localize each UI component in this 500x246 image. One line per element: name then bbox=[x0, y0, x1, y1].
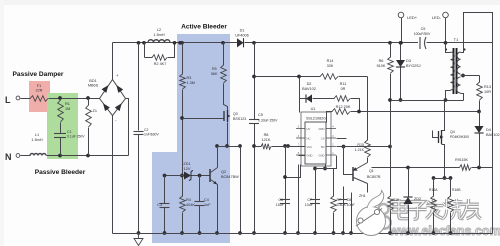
wire IC bottom line bbox=[313, 156, 336, 171]
svg-text:1.5mH: 1.5mH bbox=[153, 33, 164, 37]
connector ZH1 bbox=[356, 191, 386, 236]
wire bridge right vertex to N bbox=[126, 99, 129, 156]
svg-text:DRN: DRN bbox=[319, 127, 325, 131]
terminal N bbox=[5, 152, 20, 162]
capacitor C4 bbox=[195, 174, 212, 234]
svg-text:UF4006: UF4006 bbox=[235, 34, 249, 38]
resistor R7 bbox=[331, 169, 347, 234]
resistor R16B bbox=[448, 179, 462, 234]
wire D2 line bbox=[300, 77, 360, 113]
capacitor C3 bbox=[157, 174, 169, 234]
node C8 bottom bbox=[341, 231, 345, 235]
svg-text:R2 4K7: R2 4K7 bbox=[154, 62, 167, 66]
wire R16 bus bbox=[432, 176, 453, 180]
wire top rail bbox=[113, 42, 493, 44]
svg-text:Passive Damper: Passive Damper bbox=[13, 71, 64, 78]
wire ZH1 pin column bbox=[351, 193, 353, 234]
svg-text:F1: F1 bbox=[37, 84, 41, 88]
resistor R1 bbox=[58, 99, 71, 134]
svg-text:C9: C9 bbox=[421, 27, 426, 31]
svg-text:R9115K: R9115K bbox=[455, 158, 468, 162]
svg-text:GND: GND bbox=[319, 153, 325, 157]
resistor R15 bbox=[355, 140, 371, 157]
transistor Q3 bbox=[224, 110, 246, 122]
wire VCC pin line bbox=[283, 144, 297, 148]
node pin line R6col bbox=[388, 145, 392, 149]
svg-text:Q3: Q3 bbox=[233, 112, 238, 116]
svg-text:HV: HV bbox=[307, 127, 311, 131]
svg-text:C7: C7 bbox=[307, 198, 312, 202]
svg-text:10R: 10R bbox=[484, 90, 491, 94]
svg-text:12V: 12V bbox=[184, 167, 191, 171]
label Passive Damper bbox=[13, 71, 64, 78]
svg-text:1.5mH: 1.5mH bbox=[31, 138, 42, 142]
varistor Z1 bbox=[86, 99, 97, 156]
wire R12 line bbox=[327, 112, 480, 123]
wire Q3 node to bleed column bbox=[228, 144, 242, 233]
svg-text:D2: D2 bbox=[307, 82, 312, 86]
wire Q3 gate line bbox=[180, 116, 224, 120]
svg-text:510K: 510K bbox=[377, 64, 386, 68]
node C7 bottom bbox=[313, 231, 317, 235]
svg-text:T1: T1 bbox=[454, 37, 459, 42]
resistor R4 bbox=[180, 196, 196, 234]
active bleeder highlight box bbox=[152, 34, 230, 243]
node C3 bottom bbox=[163, 231, 167, 235]
svg-text:R16B: R16B bbox=[452, 188, 461, 192]
svg-text:CS: CS bbox=[321, 136, 325, 140]
wire N line bbox=[21, 155, 129, 157]
svg-text:LED+: LED+ bbox=[407, 15, 418, 20]
wire R14 to R15 bbox=[367, 77, 369, 141]
svg-text:MB6S: MB6S bbox=[88, 84, 99, 88]
node bleed bottom bbox=[238, 231, 242, 235]
svg-text:NC: NC bbox=[307, 136, 311, 140]
watermark text dianzifashaoyou bbox=[392, 199, 481, 219]
svg-text:0.1uF 250V: 0.1uF 250V bbox=[67, 135, 85, 139]
svg-text:BD1: BD1 bbox=[89, 79, 96, 83]
node ZH1 pin bottom bbox=[349, 231, 353, 235]
svg-text:ZD2: ZD2 bbox=[414, 197, 421, 201]
svg-text:56K: 56K bbox=[211, 72, 218, 76]
wire pin CS stub bbox=[337, 138, 347, 140]
resistor R12 bbox=[332, 105, 351, 114]
svg-text:PD6K0H300: PD6K0H300 bbox=[450, 135, 469, 139]
svg-text:C2: C2 bbox=[144, 128, 148, 132]
svg-text:C3: C3 bbox=[157, 203, 162, 207]
inductor L2 bbox=[148, 28, 170, 43]
node N-Z1 junction bbox=[86, 154, 90, 158]
wire clamp line bbox=[388, 98, 463, 102]
resistor R9 bbox=[455, 158, 471, 170]
svg-text:BSS123: BSS123 bbox=[233, 117, 246, 121]
wire secondary bottom bbox=[461, 94, 464, 101]
node IC gnd bottom bbox=[296, 231, 300, 235]
capacitor C5 bbox=[249, 41, 278, 234]
watermark logo bbox=[378, 202, 392, 229]
svg-text:0.33uF 250V: 0.33uF 250V bbox=[258, 119, 278, 123]
svg-text:R1: R1 bbox=[65, 102, 70, 106]
node C4 bottom bbox=[198, 231, 202, 235]
resistor F1 bbox=[30, 84, 48, 101]
node R8 right bbox=[283, 144, 287, 148]
wire Q2 collector bbox=[215, 144, 227, 167]
svg-text:R5: R5 bbox=[212, 67, 217, 71]
svg-text:GND: GND bbox=[307, 153, 313, 157]
node L2 left bbox=[137, 41, 146, 45]
wire primary bottom bbox=[446, 91, 451, 101]
wire secondary loop bbox=[461, 13, 493, 234]
svg-text:15uF: 15uF bbox=[276, 203, 285, 207]
svg-text:1nF/630V: 1nF/630V bbox=[144, 133, 159, 137]
bridge rectifier BD1 bbox=[88, 73, 126, 123]
IC U1 SSL21082G bbox=[296, 107, 336, 166]
resistor R6 bbox=[377, 41, 394, 197]
passive bleeder highlight box bbox=[47, 93, 78, 159]
node Q3-Q2 junction bbox=[225, 144, 229, 148]
diode D1 bbox=[235, 29, 249, 48]
svg-text:U1: U1 bbox=[311, 107, 316, 111]
wire bridge top to rail bbox=[112, 43, 114, 80]
svg-text:Q1: Q1 bbox=[369, 169, 374, 173]
wire Q1 emitter down bbox=[367, 184, 369, 193]
capacitor C2 bbox=[134, 43, 160, 234]
svg-text:C8: C8 bbox=[347, 198, 352, 202]
resistor R3 bbox=[180, 41, 195, 197]
svg-text:1M: 1M bbox=[65, 107, 70, 111]
svg-text:Q4: Q4 bbox=[450, 130, 455, 134]
svg-text:100uF/50V: 100uF/50V bbox=[414, 32, 431, 36]
node R12 junction bbox=[357, 110, 361, 114]
svg-text:R10: R10 bbox=[393, 198, 400, 202]
svg-text:+: + bbox=[116, 73, 119, 78]
svg-text:1nF: 1nF bbox=[204, 203, 211, 207]
svg-text:ZD1: ZD1 bbox=[183, 162, 190, 166]
passive damper highlight box bbox=[29, 81, 50, 112]
transistor Q2 bbox=[210, 168, 239, 185]
svg-text:Q2: Q2 bbox=[221, 170, 226, 174]
ground symbol bbox=[134, 231, 143, 245]
node R8 left bbox=[252, 144, 256, 148]
node R10 bottom bbox=[388, 231, 392, 235]
resistor R11 bbox=[334, 82, 350, 101]
wire bridge bottom to ground rail bbox=[112, 116, 114, 234]
wire ZD1 left line bbox=[165, 175, 183, 177]
capacitor C9 bbox=[414, 27, 431, 49]
node N-C1 junction bbox=[58, 154, 62, 158]
svg-text:R8: R8 bbox=[264, 133, 269, 137]
svg-text:R6: R6 bbox=[379, 59, 384, 63]
node R16A bottom bbox=[432, 231, 436, 235]
node R14 left bbox=[252, 75, 256, 79]
svg-text:L2: L2 bbox=[157, 28, 161, 32]
resistor R8 bbox=[255, 133, 306, 149]
transformer T1 bbox=[445, 37, 466, 94]
svg-text:C1: C1 bbox=[67, 130, 71, 134]
capacitor C8 bbox=[339, 187, 356, 234]
resistor R5 bbox=[211, 41, 228, 113]
svg-text:1.21K: 1.21K bbox=[355, 148, 365, 152]
svg-text:C5: C5 bbox=[258, 113, 263, 117]
wire L line bbox=[21, 98, 100, 100]
svg-text:R4: R4 bbox=[186, 198, 191, 202]
svg-text:121K: 121K bbox=[262, 138, 271, 142]
terminal LED- bbox=[432, 12, 448, 44]
node C5 bottom bbox=[252, 231, 256, 235]
svg-text:R11: R11 bbox=[340, 82, 347, 86]
svg-text:BAV102: BAV102 bbox=[302, 87, 316, 91]
svg-text:R3: R3 bbox=[187, 76, 192, 80]
svg-text:C6: C6 bbox=[278, 198, 283, 202]
node R4 bottom bbox=[180, 231, 184, 235]
diode D4 bbox=[474, 112, 499, 168]
svg-text:R16A: R16A bbox=[429, 188, 438, 192]
svg-text:L1: L1 bbox=[35, 133, 39, 137]
resistor R16A bbox=[429, 179, 438, 234]
svg-text:BC847BW: BC847BW bbox=[221, 175, 239, 179]
capacitor C6 bbox=[276, 198, 290, 207]
svg-text:33K: 33K bbox=[327, 64, 334, 68]
svg-text:N: N bbox=[5, 152, 12, 162]
wire primary top bbox=[446, 43, 451, 53]
node Q2 emitter bottom bbox=[215, 231, 219, 235]
svg-text:BYG2SJ: BYG2SJ bbox=[406, 64, 421, 68]
wire pin SD line bbox=[337, 145, 391, 175]
zener ZD2 bbox=[403, 168, 421, 234]
node R9 right bbox=[477, 166, 481, 170]
svg-text:www.elecfans.com: www.elecfans.com bbox=[388, 224, 500, 238]
svg-text:R13: R13 bbox=[484, 85, 491, 89]
terminal LED+ bbox=[398, 12, 418, 44]
svg-text:Active Bleeder: Active Bleeder bbox=[181, 24, 227, 31]
wire C6 column bbox=[285, 147, 287, 234]
svg-text:L: L bbox=[5, 95, 11, 105]
resistor R2 bbox=[145, 43, 175, 67]
svg-text:R14: R14 bbox=[327, 59, 334, 63]
node ZD2 bottom bbox=[406, 231, 410, 235]
svg-text:R12 20K: R12 20K bbox=[336, 105, 351, 109]
svg-text:BC807B: BC807B bbox=[367, 175, 381, 179]
node C6 bottom bbox=[283, 231, 287, 235]
svg-text:D3: D3 bbox=[406, 59, 411, 63]
svg-text:0R: 0R bbox=[341, 87, 346, 91]
inductor L1 bbox=[30, 133, 46, 156]
svg-text:D1: D1 bbox=[240, 29, 245, 33]
node clamp junction bbox=[444, 98, 448, 102]
resistor R13 bbox=[477, 76, 492, 112]
svg-text:BAV102: BAV102 bbox=[486, 133, 500, 137]
node L-R1 junction bbox=[58, 96, 62, 100]
node D2 left bbox=[297, 75, 301, 79]
wire bottom rail bbox=[113, 233, 493, 235]
node R16B bottom bbox=[449, 231, 453, 235]
svg-text:10uF: 10uF bbox=[305, 203, 314, 207]
node R7 bottom bbox=[332, 231, 336, 235]
node secondary tap bbox=[461, 74, 480, 78]
resistor R14 bbox=[320, 59, 338, 79]
svg-text:22R: 22R bbox=[36, 89, 43, 93]
svg-text:C4: C4 bbox=[204, 198, 209, 202]
svg-text:VCC: VCC bbox=[307, 145, 313, 149]
svg-text:1.3M: 1.3M bbox=[187, 81, 195, 85]
wire IC gnd column bbox=[283, 156, 305, 234]
svg-text:10uF: 10uF bbox=[347, 203, 356, 207]
svg-text:404K: 404K bbox=[186, 203, 195, 207]
label Active Bleeder bbox=[181, 24, 227, 31]
watermark url bbox=[388, 224, 500, 238]
svg-text:SD: SD bbox=[321, 145, 325, 149]
transistor Q1 bbox=[353, 158, 381, 184]
wire Q3 source down bbox=[227, 123, 229, 147]
wire CS line bbox=[372, 167, 493, 169]
svg-text:LED-: LED- bbox=[432, 15, 442, 20]
wire R14 line bbox=[255, 76, 368, 78]
label Passive Bleeder bbox=[35, 169, 86, 176]
node L2 right bbox=[173, 41, 182, 45]
node L-Z1 junction bbox=[86, 96, 90, 100]
capacitor C7 bbox=[305, 169, 320, 234]
svg-text:SSL21082G: SSL21082G bbox=[306, 117, 326, 121]
node R13 bottom bbox=[477, 110, 481, 114]
zener ZD1 bbox=[180, 162, 210, 181]
wire Q2 emitter down bbox=[217, 185, 219, 234]
diode D2 bbox=[302, 82, 316, 103]
terminal L bbox=[5, 95, 20, 105]
resistor R10 bbox=[388, 196, 399, 234]
capacitor C1 bbox=[54, 130, 85, 156]
transistor Q4 bbox=[433, 101, 469, 179]
node ZD2 top bbox=[406, 166, 410, 170]
svg-text:Z1: Z1 bbox=[93, 109, 97, 113]
svg-text:D4: D4 bbox=[486, 128, 491, 132]
svg-text:Passive Bleeder: Passive Bleeder bbox=[35, 169, 86, 176]
svg-text:ZH1: ZH1 bbox=[359, 194, 366, 198]
svg-text:R15: R15 bbox=[357, 143, 364, 147]
diode D3 bbox=[396, 41, 421, 101]
